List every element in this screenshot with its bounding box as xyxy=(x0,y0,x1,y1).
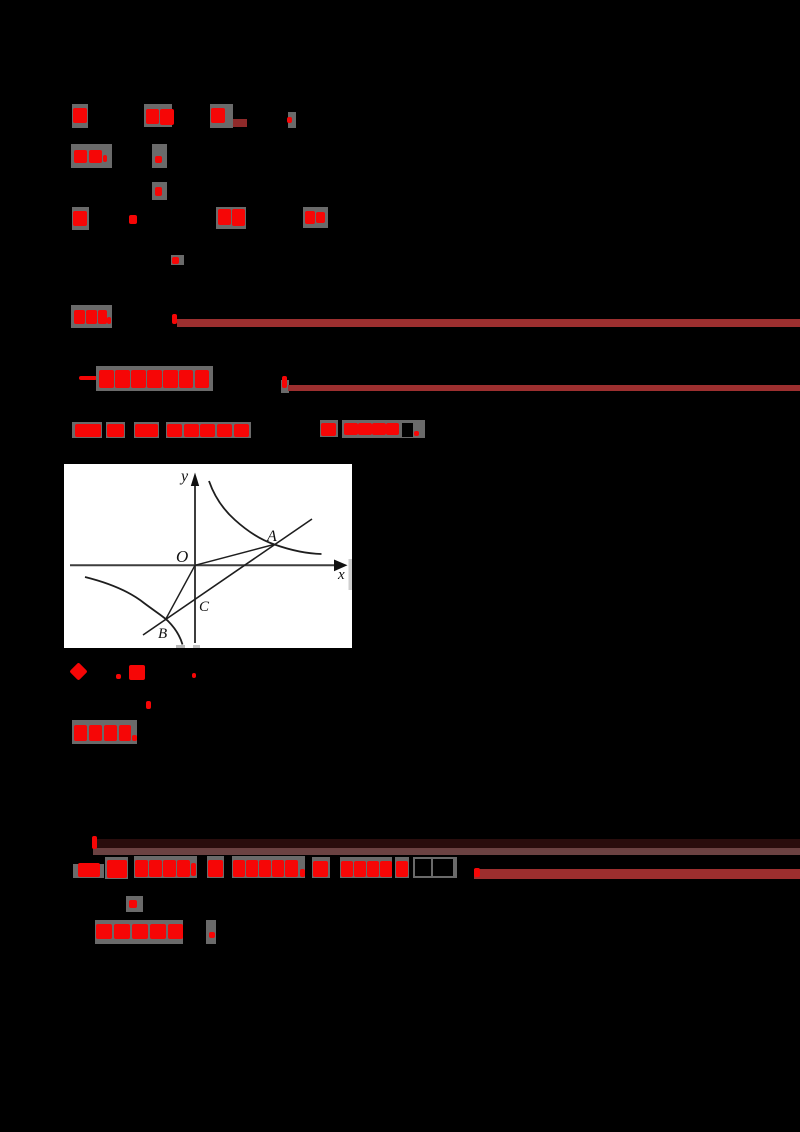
svg-text:B: B xyxy=(158,626,167,642)
svg-text:O: O xyxy=(176,547,188,566)
svg-text:y: y xyxy=(179,468,189,485)
right edge artifact xyxy=(349,559,353,590)
line AB xyxy=(143,519,312,635)
upper hyperbola branch xyxy=(209,481,322,554)
svg-text:A: A xyxy=(266,528,277,545)
y-axis xyxy=(194,476,196,643)
segment OA xyxy=(195,544,274,565)
svg-text:x: x xyxy=(337,567,345,583)
x-axis xyxy=(70,564,340,566)
segment OB xyxy=(166,565,195,618)
red text row 14 xyxy=(78,863,100,877)
svg-text:C: C xyxy=(199,599,210,615)
lower hyperbola branch xyxy=(85,577,183,645)
